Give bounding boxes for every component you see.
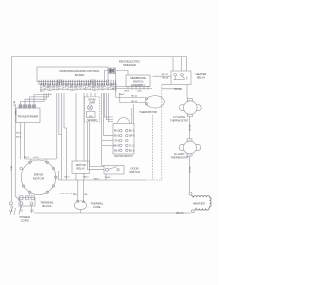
svg-text:BK-4: BK-4 bbox=[16, 137, 22, 139]
svg-text:WH-2: WH-2 bbox=[83, 177, 89, 179]
svg-text:BK-11: BK-11 bbox=[131, 96, 138, 98]
svg-text:HEATER: HEATER bbox=[196, 72, 207, 76]
svg-text:N: N bbox=[20, 209, 22, 213]
svg-text:CYCLING: CYCLING bbox=[173, 115, 185, 119]
svg-text:BK-12: BK-12 bbox=[131, 101, 138, 103]
svg-text:BK-2: BK-2 bbox=[65, 177, 71, 179]
svg-text:FUSE: FUSE bbox=[93, 205, 100, 209]
svg-text:WH-2: WH-2 bbox=[113, 145, 120, 147]
svg-text:SPEAKER: SPEAKER bbox=[123, 63, 136, 67]
svg-text:BK-9: BK-9 bbox=[12, 101, 14, 106]
svg-text:BU-2: BU-2 bbox=[129, 150, 135, 152]
svg-text:OR-5: OR-5 bbox=[114, 83, 118, 90]
svg-text:BK-2: BK-2 bbox=[24, 157, 30, 159]
svg-text:OR-30: OR-30 bbox=[162, 78, 169, 80]
svg-text:BK-2: BK-2 bbox=[129, 131, 135, 133]
svg-text:GY-4: GY-4 bbox=[34, 157, 40, 159]
svg-text:L2: L2 bbox=[30, 209, 34, 213]
svg-text:CORD: CORD bbox=[21, 218, 29, 222]
svg-text:RD-2: RD-2 bbox=[114, 131, 120, 133]
svg-text:THERMAL: THERMAL bbox=[90, 201, 103, 205]
svg-text:DRUM: DRUM bbox=[89, 100, 96, 102]
svg-text:WH-9: WH-9 bbox=[105, 177, 111, 179]
svg-text:RD-11: RD-11 bbox=[162, 74, 169, 76]
svg-text:BK-2: BK-2 bbox=[125, 91, 131, 93]
svg-text:WH-34: WH-34 bbox=[176, 212, 184, 215]
svg-text:BOARD: BOARD bbox=[75, 73, 85, 77]
svg-text:WH-2: WH-2 bbox=[94, 178, 100, 180]
svg-text:OR-6: OR-6 bbox=[129, 136, 135, 138]
svg-text:TRANSFORMER: TRANSFORMER bbox=[18, 114, 39, 118]
svg-text:RELAY: RELAY bbox=[197, 75, 206, 79]
svg-text:AUX: AUX bbox=[14, 111, 17, 116]
svg-text:BU-30: BU-30 bbox=[188, 125, 190, 132]
svg-text:HEATER: HEATER bbox=[193, 201, 206, 205]
svg-text:HI-LIMIT: HI-LIMIT bbox=[174, 152, 185, 156]
svg-text:THERMOSTAT: THERMOSTAT bbox=[170, 118, 188, 122]
svg-text:LAMP: LAMP bbox=[89, 102, 96, 105]
svg-text:RD-34: RD-34 bbox=[188, 167, 190, 174]
svg-text:ASSEMBLY: ASSEMBLY bbox=[131, 83, 145, 87]
svg-text:BK: BK bbox=[85, 194, 88, 196]
svg-text:BU-3: BU-3 bbox=[114, 136, 120, 138]
svg-text:WH: WH bbox=[73, 194, 77, 196]
svg-text:GY-3: GY-3 bbox=[137, 90, 143, 92]
svg-text:WH-30: WH-30 bbox=[175, 88, 183, 91]
svg-text:L1: L1 bbox=[9, 209, 13, 213]
svg-text:RELAY: RELAY bbox=[76, 166, 85, 170]
svg-text:MICROPROCESSOR CONTROL: MICROPROCESSOR CONTROL bbox=[59, 69, 100, 73]
svg-text:BLOCK: BLOCK bbox=[42, 204, 51, 208]
svg-text:DOOR: DOOR bbox=[130, 167, 138, 171]
svg-text:BU-4: BU-4 bbox=[16, 133, 22, 135]
svg-text:BK-2: BK-2 bbox=[114, 150, 120, 152]
svg-text:THERMOSTAT: THERMOSTAT bbox=[170, 156, 188, 160]
svg-text:SWITCH: SWITCH bbox=[129, 170, 140, 174]
svg-text:MOTOR SWITCH: MOTOR SWITCH bbox=[114, 156, 133, 158]
svg-text:YL-2: YL-2 bbox=[129, 145, 135, 147]
svg-text:THERMISTOR: THERMISTOR bbox=[139, 110, 157, 114]
svg-text:MOTOR: MOTOR bbox=[76, 163, 86, 167]
svg-text:TN-2: TN-2 bbox=[114, 141, 120, 143]
svg-text:SENSOR: SENSOR bbox=[87, 120, 97, 122]
svg-text:BK-6: BK-6 bbox=[10, 166, 12, 171]
svg-text:WH-2: WH-2 bbox=[119, 94, 125, 96]
svg-text:MOTOR: MOTOR bbox=[33, 177, 45, 181]
